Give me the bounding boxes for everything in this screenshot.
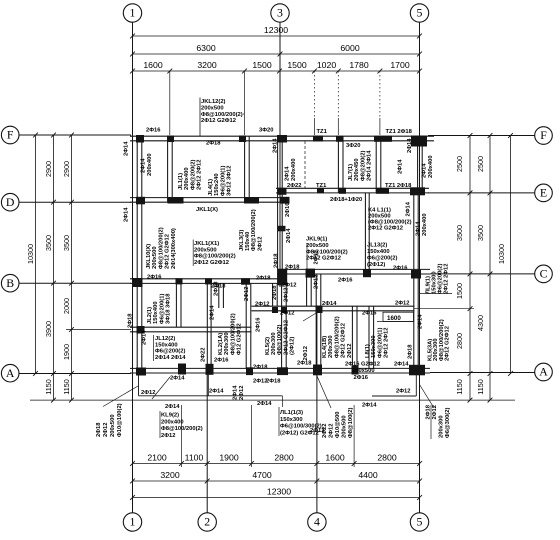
svg-text:Φ8@100/200(2): Φ8@100/200(2) (306, 249, 348, 255)
svg-text:3200: 3200 (197, 60, 216, 70)
svg-text:2Φ12: 2Φ12 (103, 423, 109, 437)
axis line C horizontal (430, 273, 535, 275)
svg-text:(2Φ12) G2Φ12: (2Φ12) G2Φ12 (280, 430, 319, 436)
svg-text:200x500: 200x500 (152, 246, 158, 269)
axis line F horizontal (19, 134, 131, 136)
column E-10600 (376, 188, 389, 194)
leader diag right edge (420, 385, 435, 409)
svg-text:2Φ12 G2Φ12: 2Φ12 G2Φ12 (283, 320, 289, 355)
svg-text:TZ1 2Φ18: TZ1 2Φ18 (386, 129, 413, 135)
interior dim 1600 line (377, 321, 414, 323)
beam vertical x4800 F-D (244, 136, 246, 202)
column TZ F-10600 (374, 136, 392, 142)
svg-text:1020: 1020 (317, 60, 336, 70)
column C-366 (363, 269, 371, 277)
svg-text:2Φ22: 2Φ22 (287, 183, 301, 189)
svg-text:2Φ18: 2Φ18 (96, 422, 102, 437)
svg-text:150x40: 150x40 (245, 232, 251, 251)
column E-5 (410, 187, 425, 195)
leader right cluster (430, 405, 432, 439)
svg-text:Φ8@100(2): Φ8@100(2) (348, 408, 354, 438)
beam vertical x9 E-C (364, 193, 366, 274)
svg-text:2Φ12: 2Φ12 (432, 405, 438, 419)
svg-text:2Φ18: 2Φ18 (214, 281, 220, 296)
svg-text:3900: 3900 (44, 321, 53, 337)
beam vertical axis3 B-A (281, 283, 283, 368)
axis line 5 vertical (419, 22, 421, 513)
column C-edge (411, 270, 421, 279)
svg-text:JKL3(3): JKL3(3) (239, 230, 245, 251)
column F-5 (411, 136, 427, 147)
svg-text:2Φ18: 2Φ18 (253, 365, 268, 371)
column mid-3 (278, 226, 286, 232)
svg-text:2Φ18: 2Φ18 (272, 285, 278, 300)
svg-text:150x400: 150x400 (367, 249, 390, 255)
svg-text:4: 4 (314, 515, 320, 529)
svg-text:D: D (6, 195, 15, 209)
axis bubble B left (1, 274, 19, 292)
axis bubble 5 bottom (410, 513, 428, 531)
svg-text:1600: 1600 (387, 315, 401, 322)
column mid75-316 (316, 306, 323, 314)
axis bubble F left (1, 126, 19, 144)
beam mid 2000 below B (130, 326, 252, 328)
beam vertical axis5 F-E (417, 136, 419, 193)
column F-1600 (167, 136, 174, 143)
svg-text:200x450: 200x450 (354, 158, 360, 181)
svg-text:2Φ14: 2Φ14 (257, 401, 272, 407)
bottom extension lines (181, 405, 183, 467)
svg-text:2Φ12: 2Φ12 (244, 287, 250, 301)
svg-text:TZ1 2Φ18: TZ1 2Φ18 (385, 183, 412, 189)
leader diag below A left2 (103, 386, 138, 407)
svg-text:3200: 3200 (160, 470, 179, 480)
top dim line segments (133, 70, 420, 72)
balcony stub right (207, 375, 209, 396)
top extension lines (169, 71, 171, 135)
svg-text:2Φ18: 2Φ18 (256, 276, 271, 282)
svg-text:Φ8@100/200(2): Φ8@100/200(2) (251, 209, 257, 251)
leader line top text block (199, 98, 201, 137)
column A-edge (409, 365, 425, 376)
svg-text:JL1(1): JL1(1) (178, 173, 184, 190)
axis bubble A left (1, 364, 19, 382)
column F-1 (136, 135, 144, 143)
svg-text:4700: 4700 (252, 470, 271, 480)
bottom dim line segments (133, 463, 420, 465)
svg-text:3: 3 (277, 6, 283, 20)
svg-text:JL13(2): JL13(2) (367, 243, 387, 249)
svg-text:2Φ12: 2Φ12 (280, 311, 294, 317)
svg-text:6000: 6000 (340, 43, 359, 53)
column mid84-1 (137, 326, 145, 334)
bottom dim line 3200 4700 4400 (133, 480, 420, 482)
svg-text:150x300: 150x300 (280, 417, 303, 423)
svg-text:3500: 3500 (455, 225, 464, 241)
column A-352 (352, 366, 359, 375)
svg-text:1150: 1150 (44, 379, 53, 394)
svg-text:200x500: 200x500 (352, 368, 375, 374)
beam vertical below C x306 (306, 274, 308, 306)
svg-text:2Φ18: 2Φ18 (266, 378, 281, 384)
svg-text:1900: 1900 (62, 344, 71, 360)
svg-text:2Φ14: 2Φ14 (273, 138, 279, 153)
axis line 3 vertical (279, 22, 281, 287)
svg-text:2Φ14: 2Φ14 (124, 207, 130, 222)
svg-text:200x500: 200x500 (341, 415, 347, 438)
svg-text:2Φ16: 2Φ16 (393, 265, 408, 271)
svg-text:JKL10(X): JKL10(X) (146, 244, 152, 269)
axis line D horizontal (19, 201, 131, 203)
svg-text:Φ6@100/300(2): Φ6@100/300(2) (280, 424, 322, 430)
svg-text:12300: 12300 (267, 487, 291, 497)
svg-text:JL12(2): JL12(2) (155, 336, 175, 342)
svg-text:1500: 1500 (252, 60, 271, 70)
svg-text:2Φ14: 2Φ14 (286, 228, 292, 243)
column C-306 (306, 269, 316, 278)
beam vertical TZ x10600 F-E (375, 136, 377, 193)
axis bubble 5 top (410, 4, 428, 22)
svg-text:1700: 1700 (390, 60, 409, 70)
svg-text:KL5(2): KL5(2) (265, 337, 271, 355)
svg-text:Φ8@100/200(2): Φ8@100/200(2) (161, 426, 203, 432)
svg-text:TZ1: TZ1 (317, 129, 328, 135)
column BC-3 junction (278, 269, 288, 286)
column D-1 (136, 197, 145, 205)
svg-text:2Φ14: 2Φ14 (209, 389, 224, 395)
svg-text:2800: 2800 (455, 333, 464, 349)
svg-text:200x400: 200x400 (161, 419, 184, 425)
svg-text:A: A (6, 366, 15, 380)
svg-text:2Φ12 G2Φ12: 2Φ12 G2Φ12 (368, 225, 403, 231)
svg-text:2500: 2500 (476, 156, 485, 172)
beam JKL10 axis B (130, 278, 287, 280)
svg-text:2Φ14: 2Φ14 (405, 201, 411, 216)
column A-178 (178, 364, 186, 375)
axis bubble 3 top (271, 4, 289, 22)
svg-text:2Φ18: 2Φ18 (274, 253, 280, 268)
svg-text:Φ6@200(1): Φ6@200(1) (220, 166, 226, 196)
beam vertical axis1 F-A (136, 135, 138, 374)
svg-text:200x400: 200x400 (428, 155, 434, 178)
column A-310 (313, 365, 322, 376)
column mid75-272 (272, 307, 278, 313)
svg-text:2Φ16: 2Φ16 (147, 275, 162, 281)
svg-text:6300: 6300 (196, 43, 215, 53)
svg-text:TZ1: TZ1 (316, 183, 327, 189)
svg-text:L8(1): L8(1) (365, 344, 371, 358)
svg-text:2Φ16: 2Φ16 (362, 311, 377, 317)
axis bubble A right (535, 363, 553, 381)
beam vertical x209 B-A (206, 283, 208, 368)
column F-8820 (336, 136, 343, 142)
leader diag mid (282, 396, 284, 407)
svg-text:2Φ14: 2Φ14 (322, 301, 337, 307)
svg-text:2Φ16: 2Φ16 (146, 128, 161, 134)
svg-text:2Φ14: 2Φ14 (418, 314, 424, 329)
svg-text:2000: 2000 (62, 298, 71, 314)
svg-text:Φ10@500: Φ10@500 (335, 411, 341, 438)
svg-text:2Φ12: 2Φ12 (257, 237, 263, 251)
svg-text:2Φ16: 2Φ16 (214, 358, 229, 364)
top dim line 12300 (133, 35, 420, 37)
column A-1 (136, 368, 146, 376)
centerline room F-E (304, 141, 306, 188)
svg-text:1100: 1100 (185, 453, 204, 463)
axis bubble F right (535, 127, 553, 145)
beam vertical x1600 F-D (167, 136, 169, 202)
svg-text:JKL12(2): JKL12(2) (201, 99, 226, 105)
svg-text:5: 5 (417, 6, 423, 20)
beam vertical x367 mid-A (368, 306, 370, 368)
svg-text:2Φ14: 2Φ14 (142, 330, 148, 345)
svg-text:(2Φ12): (2Φ12) (290, 337, 296, 355)
column A-3 (277, 367, 288, 375)
svg-text:1900: 1900 (219, 453, 238, 463)
column F-3 (277, 135, 287, 143)
beam JKL1 axis D (130, 197, 287, 199)
svg-text:150x300: 150x300 (371, 335, 377, 358)
axis bubble 1 bottom (123, 513, 141, 531)
svg-text:2Φ14(300x400): 2Φ14(300x400) (171, 228, 177, 269)
svg-text:2Φ18: 2Φ18 (206, 141, 221, 147)
svg-text:200x300: 200x300 (439, 415, 445, 438)
axis bubble 1 top (123, 4, 141, 22)
column TZ1 F (313, 136, 323, 142)
column D-1600 (168, 197, 184, 204)
svg-text:Φ12 G2Φ12: Φ12 G2Φ12 (237, 323, 243, 355)
leader JKL9 (306, 243, 308, 272)
beam vertical x246 B-A (245, 283, 247, 368)
leader JKL1X1 (192, 240, 194, 267)
svg-text:2900: 2900 (62, 161, 71, 177)
axis bubble C right (535, 265, 553, 283)
left dim line 10300 (35, 135, 37, 374)
svg-text:(2Φ12): (2Φ12) (367, 262, 385, 268)
interior dim 1600 box (383, 312, 414, 321)
svg-text:2Φ12: 2Φ12 (314, 275, 320, 289)
svg-text:KL2(1A): KL2(1A) (218, 333, 224, 355)
column F-4800 (239, 136, 246, 143)
svg-text:Φ6@200(2): Φ6@200(2) (155, 349, 185, 355)
beam vertical axis3 F-B (277, 136, 279, 283)
svg-text:3Φ12 3Φ12: 3Φ12 3Φ12 (227, 166, 233, 196)
leader LL9 underline (420, 293, 452, 295)
svg-text:2Φ12: 2Φ12 (255, 302, 269, 308)
svg-text:1150: 1150 (476, 379, 485, 394)
svg-text:JL4(1): JL4(1) (208, 179, 214, 196)
svg-text:2800: 2800 (377, 453, 396, 463)
svg-text:2Φ14: 2Φ14 (416, 221, 422, 236)
svg-text:2Φ12 G2Φ12: 2Φ12 G2Φ12 (194, 260, 229, 266)
svg-text:Φ6@300(2): Φ6@300(2) (445, 408, 451, 438)
svg-text:Φ6@200(1): Φ6@200(1) (377, 328, 383, 358)
svg-text:JKL9(1): JKL9(1) (306, 237, 327, 243)
svg-text:Φ8@100/200(2): Φ8@100/200(2) (334, 316, 340, 358)
column E-3 (278, 188, 287, 195)
svg-text:200x500: 200x500 (201, 105, 224, 111)
beam JKL12 axis F (130, 135, 434, 137)
svg-text:2Φ16: 2Φ16 (338, 278, 353, 284)
axis line B horizontal (19, 282, 131, 284)
svg-text:2Φ18: 2Φ18 (285, 265, 300, 271)
svg-text:200x300: 200x300 (224, 332, 230, 355)
right dim chain inner (469, 136, 471, 401)
svg-text:200x400: 200x400 (291, 158, 297, 181)
beam vertical x176 B-mid (175, 283, 177, 327)
svg-text:Φ8@100/200(2): Φ8@100/200(2) (158, 227, 164, 269)
column B-176 (176, 278, 183, 284)
svg-text:2Φ12 G2Φ12: 2Φ12 G2Φ12 (306, 256, 341, 262)
svg-text:Φ8@100(2): Φ8@100(2) (277, 325, 283, 355)
svg-text:F: F (7, 128, 14, 142)
svg-text:2Φ14: 2Φ14 (124, 141, 130, 156)
svg-text:10300: 10300 (497, 244, 506, 264)
axis bubble 2 bottom (198, 513, 216, 531)
svg-text:Φ8@100/200(2): Φ8@100/200(2) (230, 313, 236, 355)
svg-text:A: A (539, 365, 548, 379)
svg-text:2800: 2800 (274, 453, 293, 463)
axis line 2 vertical (206, 373, 208, 513)
svg-text:2Φ12 G2Φ12: 2Φ12 G2Φ12 (445, 326, 451, 361)
svg-text:4400: 4400 (358, 470, 377, 480)
svg-text:JL7(1): JL7(1) (348, 164, 354, 181)
svg-text:4300: 4300 (476, 315, 485, 331)
beam axis C (277, 268, 430, 270)
svg-text:Φ8@200(2): Φ8@200(2) (360, 151, 366, 181)
svg-text:ЛL1(1(3): ЛL1(1(3) (280, 410, 303, 416)
svg-text:2Φ22: 2Φ22 (201, 348, 207, 362)
svg-text:2Φ12: 2Φ12 (303, 346, 309, 360)
svg-text:2Φ16: 2Φ16 (256, 317, 262, 332)
beam vertical x352 mid-A (351, 306, 353, 368)
svg-text:2Φ18: 2Φ18 (408, 344, 414, 359)
left extension lines (30, 399, 515, 401)
svg-text:200x500: 200x500 (194, 247, 217, 253)
balcony edge line below A (139, 395, 283, 397)
top dim line 6300 6000 (133, 53, 420, 55)
right dim chain middle (489, 136, 491, 401)
svg-text:2Φ12: 2Φ12 (239, 386, 245, 400)
column TZ1 E (317, 188, 324, 194)
svg-text:3500: 3500 (44, 235, 53, 251)
column B-1 (132, 278, 143, 287)
beam vertical x272 B-mid (272, 283, 274, 306)
svg-text:1600: 1600 (143, 60, 162, 70)
beam axis E (276, 187, 429, 189)
svg-text:1500: 1500 (455, 283, 464, 299)
svg-text:2Φ12: 2Φ12 (161, 433, 175, 439)
beam axis A (130, 367, 430, 369)
svg-text:150x400: 150x400 (155, 342, 178, 348)
column A-246 (246, 367, 253, 375)
svg-text:2Φ12: 2Φ12 (347, 344, 353, 358)
svg-text:Φ6@200(2): Φ6@200(2) (367, 255, 397, 261)
svg-text:2Φ12 2Φ12: 2Φ12 2Φ12 (384, 328, 390, 358)
svg-text:2100: 2100 (147, 453, 166, 463)
svg-text:2Φ14: 2Φ14 (407, 138, 413, 153)
svg-text:JKL1(X1): JKL1(X1) (194, 241, 219, 247)
svg-text:150x240: 150x240 (214, 173, 220, 196)
svg-text:2Φ14 2Φ14: 2Φ14 2Φ14 (367, 150, 373, 181)
svg-text:2Φ12: 2Φ12 (395, 301, 409, 307)
svg-text:Φ10@100(2): Φ10@100(2) (117, 403, 123, 437)
svg-text:2Φ14: 2Φ14 (398, 159, 404, 174)
leader diag below A right (317, 376, 331, 408)
svg-text:JKL1(X): JKL1(X) (196, 207, 218, 213)
svg-text:200x300: 200x300 (328, 335, 334, 358)
svg-text:KL4(1B): KL4(1B) (322, 336, 328, 358)
svg-text:F: F (540, 128, 547, 142)
svg-text:2Φ14: 2Φ14 (422, 163, 428, 178)
axis bubble E right (535, 184, 553, 202)
svg-text:JL2(1): JL2(1) (147, 307, 153, 324)
svg-text:3Φ20: 3Φ20 (346, 143, 360, 149)
column A-205 (206, 364, 214, 375)
svg-text:Φ6@200(1): Φ6@200(1) (159, 294, 165, 324)
svg-text:2500: 2500 (455, 156, 464, 172)
column B-246 (241, 278, 250, 285)
svg-text:1150: 1150 (455, 379, 464, 394)
svg-text:3500: 3500 (476, 225, 485, 241)
axis bubble D left (1, 193, 19, 211)
leader LL1 (278, 407, 280, 436)
svg-text:2Φ14: 2Φ14 (233, 385, 239, 400)
svg-text:2Φ18: 2Φ18 (426, 404, 432, 419)
balcony stub left (138, 375, 140, 396)
svg-text:200x500: 200x500 (306, 243, 329, 249)
svg-text:2Φ14: 2Φ14 (394, 362, 409, 368)
axis line 4 vertical (316, 312, 318, 513)
svg-text:5: 5 (417, 515, 423, 529)
svg-text:2Φ12: 2Φ12 (396, 389, 410, 395)
svg-text:Φ8@100/200(2): Φ8@100/200(2) (194, 254, 236, 260)
svg-text:2Φ14: 2Φ14 (141, 158, 147, 173)
axis line E horizontal (428, 192, 535, 194)
bottom dim line 12300 (133, 497, 420, 499)
column D-4800 (244, 197, 259, 204)
column E-8820 (339, 188, 346, 194)
svg-text:3500: 3500 (62, 235, 71, 251)
svg-text:C: C (540, 267, 548, 281)
leader diag below A left (152, 377, 170, 399)
right balcony notch stub (415, 375, 417, 397)
svg-text:E: E (540, 186, 547, 200)
svg-text:2Φ14 2Φ14: 2Φ14 2Φ14 (155, 355, 186, 361)
svg-text:2Φ12: 2Φ12 (284, 288, 290, 302)
svg-text:1500: 1500 (287, 60, 306, 70)
axis line 1 vertical (132, 22, 134, 513)
leader JL12 (153, 335, 155, 361)
svg-text:B: B (6, 276, 14, 290)
svg-text:2Φ14: 2Φ14 (165, 404, 180, 410)
beam vertical x219 B-mid (218, 283, 220, 308)
svg-text:2: 2 (204, 515, 210, 529)
svg-text:200x400: 200x400 (184, 167, 190, 190)
svg-text:2Φ12: 2Φ12 (328, 424, 334, 438)
column B-205 (205, 278, 212, 284)
svg-text:1780: 1780 (349, 60, 368, 70)
svg-text:2Φ12 G2Φ12: 2Φ12 G2Φ12 (165, 234, 171, 269)
svg-text:KL9(2): KL9(2) (161, 413, 179, 419)
svg-text:2Φ16: 2Φ16 (285, 202, 291, 217)
svg-text:10300: 10300 (26, 244, 35, 264)
svg-text:Φ8@100/200(2)·: Φ8@100/200(2)· (201, 112, 245, 118)
right extension lines (414, 308, 474, 310)
svg-text:2Φ12 2Φ12: 2Φ12 2Φ12 (197, 160, 203, 190)
svg-text:2Φ18: 2Φ18 (128, 313, 134, 328)
svg-text:2Φ12 2Φ12: 2Φ12 2Φ12 (443, 264, 449, 294)
